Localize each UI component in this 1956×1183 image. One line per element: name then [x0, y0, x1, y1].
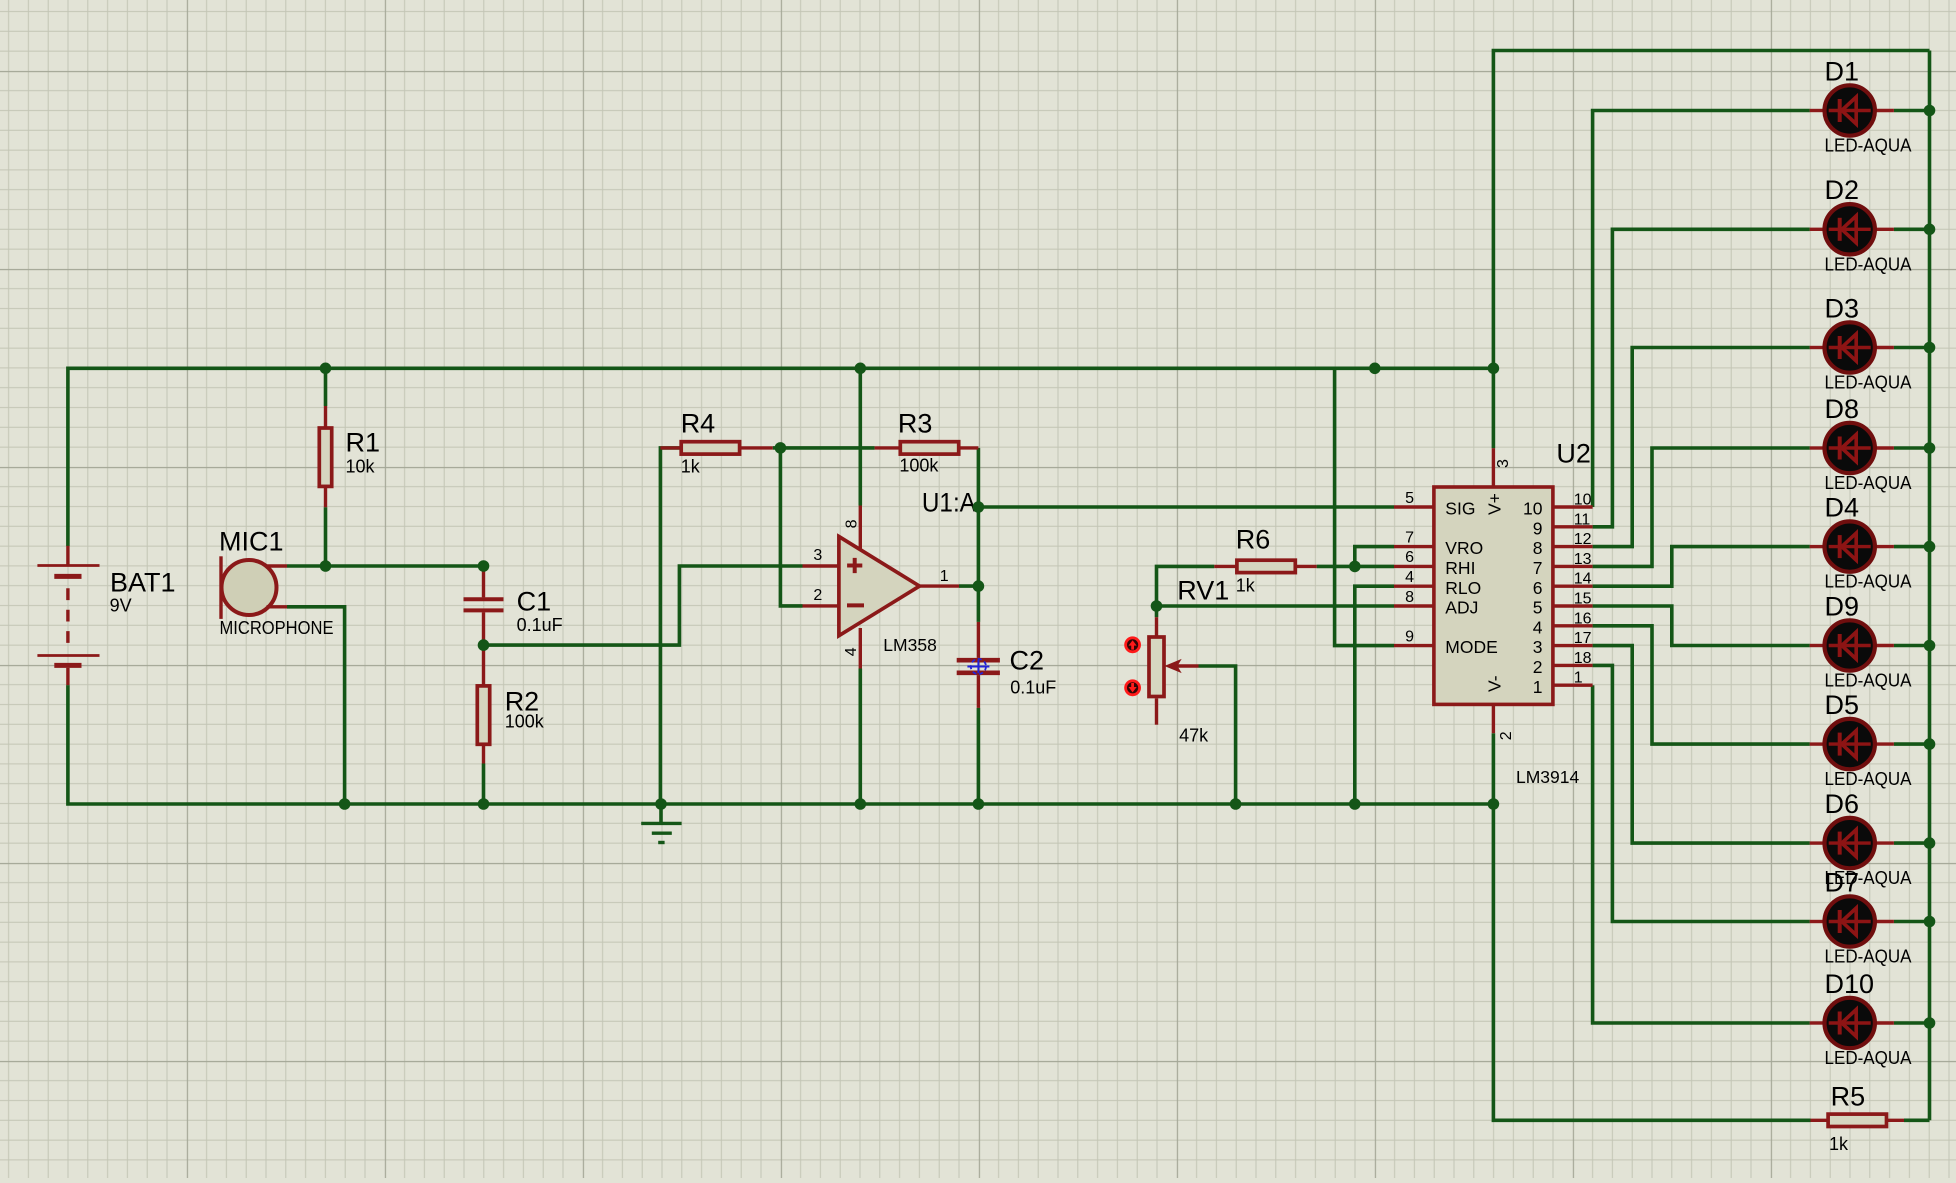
wire LM3914 output 4 to D8	[1593, 448, 1810, 566]
battery BAT1	[37, 546, 99, 685]
svg-text:D1: D1	[1825, 56, 1860, 86]
node junction 860.3,368.3	[855, 363, 867, 375]
node junction 325.5,368.3	[320, 363, 332, 375]
svg-text:VRO: VRO	[1445, 538, 1483, 558]
svg-text:MIC1: MIC1	[219, 527, 284, 557]
wire LM3914 output 5 to D4	[1593, 547, 1810, 587]
svg-text:D10: D10	[1825, 969, 1875, 999]
resistor R5	[1811, 1114, 1905, 1126]
svg-text:V+: V+	[1484, 493, 1504, 515]
node D6 bus	[1924, 837, 1936, 849]
svg-text:6: 6	[1405, 549, 1414, 566]
node D10 bus	[1924, 1017, 1936, 1029]
svg-text:C2: C2	[1010, 646, 1045, 676]
node junction 1493.4,368.3	[1488, 363, 1500, 375]
wire op-amp pin4 to ground	[858, 669, 862, 805]
wire RV1 top node to ADJ pin8	[1157, 604, 1395, 608]
wire D4 cathode to bus	[1894, 545, 1930, 549]
wire LM3914 output 6 to D9	[1593, 606, 1810, 646]
svg-text:LED-AQUA: LED-AQUA	[1825, 373, 1912, 393]
svg-text:4: 4	[1533, 617, 1543, 637]
svg-text:LED-AQUA: LED-AQUA	[1825, 769, 1912, 789]
wire LM3914 output 7 to D5	[1593, 626, 1810, 744]
svg-text:4: 4	[843, 647, 860, 656]
potentiometer RV1	[1149, 617, 1199, 725]
svg-text:D3: D3	[1825, 293, 1860, 323]
wire D7 cathode to bus	[1894, 920, 1930, 924]
wire LM3914 output 10 to D10	[1593, 685, 1810, 1023]
wire D9 cathode to bus	[1894, 644, 1930, 648]
wire RHI node to RHI pin6	[1355, 565, 1394, 569]
svg-text:100k: 100k	[505, 712, 545, 732]
wire battery negative to ground bus	[68, 685, 1494, 804]
svg-text:RHI: RHI	[1445, 558, 1475, 578]
wire LM3914 output 2 to D2	[1593, 229, 1810, 527]
ground symbol	[641, 804, 681, 843]
svg-text:10: 10	[1523, 499, 1543, 519]
resistor R4	[660, 442, 772, 454]
polarity marker C2	[967, 659, 989, 674]
wire R1 top	[324, 368, 328, 406]
IC U2 LM3914	[1394, 448, 1593, 733]
svg-text:LED-AQUA: LED-AQUA	[1825, 572, 1912, 592]
resistor R3	[875, 442, 979, 454]
svg-text:2: 2	[1533, 657, 1543, 677]
wire V+ pin3 drop	[1492, 368, 1496, 448]
wire R6 left to RV1 node	[1157, 566, 1215, 606]
svg-text:LED-AQUA: LED-AQUA	[1825, 947, 1912, 967]
svg-text:7: 7	[1533, 558, 1543, 578]
svg-text:17: 17	[1574, 630, 1592, 647]
svg-text:47k: 47k	[1179, 726, 1209, 746]
svg-text:R1: R1	[346, 428, 381, 458]
node D3 bus	[1924, 342, 1936, 354]
svg-text:14: 14	[1574, 571, 1592, 588]
wire pin1 node to C2	[977, 586, 981, 622]
svg-text:8: 8	[1405, 589, 1414, 606]
svg-text:D8: D8	[1825, 394, 1860, 424]
svg-text:0.1uF: 0.1uF	[517, 615, 563, 635]
wire R4 right to feedback node	[773, 446, 781, 450]
node D2 bus	[1924, 224, 1936, 236]
svg-text:MICROPHONE: MICROPHONE	[220, 618, 334, 638]
wire D2 cathode to bus	[1894, 228, 1930, 232]
svg-text:R5: R5	[1831, 1082, 1866, 1112]
wire D1 cathode to bus	[1894, 109, 1930, 113]
svg-text:SIG: SIG	[1445, 499, 1475, 519]
node junction 344.6,804	[339, 798, 351, 810]
svg-text:16: 16	[1574, 610, 1592, 627]
resistor R1	[319, 406, 331, 507]
node D8 bus	[1924, 442, 1936, 454]
wire R1 bottom	[324, 507, 328, 566]
svg-text:9V: 9V	[110, 595, 132, 615]
wire R6 right to RHI node	[1317, 565, 1355, 569]
LED D4	[1810, 521, 1894, 571]
wire R2 bottom to ground	[482, 764, 486, 805]
node junction 1354.8,566.4	[1349, 561, 1361, 573]
node junction 1235.6,804	[1230, 798, 1242, 810]
node junction 1374.8,368.3	[1369, 363, 1381, 375]
node D1 bus	[1924, 105, 1936, 117]
wire LM3914 output 3 to D3	[1593, 348, 1810, 547]
svg-text:8: 8	[843, 519, 860, 528]
wire C2 bottom to ground	[977, 708, 981, 804]
node junction 1493.4,804	[1488, 798, 1500, 810]
wire V- pin2 to ground node	[1492, 733, 1496, 804]
svg-text:BAT1: BAT1	[110, 568, 176, 598]
wire LM3914 output 8 to D6	[1593, 646, 1810, 844]
svg-text:5: 5	[1533, 598, 1543, 618]
svg-text:12: 12	[1574, 531, 1592, 548]
svg-text:1k: 1k	[1829, 1134, 1849, 1154]
LED D7	[1810, 896, 1894, 946]
node junction 483.5,566.0	[478, 560, 490, 572]
node junction 325.5,566.0	[320, 560, 332, 572]
node D9 bus	[1924, 640, 1936, 652]
RV1 down button	[1126, 681, 1140, 695]
wire op-amp V+ pin8 drop	[858, 368, 862, 505]
svg-text:LED-AQUA: LED-AQUA	[1825, 254, 1912, 274]
svg-text:1k: 1k	[681, 457, 701, 477]
svg-text:RLO: RLO	[1445, 578, 1481, 598]
svg-text:13: 13	[1574, 551, 1592, 568]
resistor R6	[1214, 560, 1316, 572]
RV1 up button	[1126, 638, 1140, 652]
svg-text:LM358: LM358	[883, 635, 937, 655]
svg-text:10: 10	[1574, 492, 1592, 509]
capacitor C1	[464, 566, 504, 645]
wire MIC1 plus to R1/C1 node	[287, 564, 484, 568]
svg-text:0.1uF: 0.1uF	[1010, 677, 1056, 697]
svg-text:LED-AQUA: LED-AQUA	[1825, 473, 1912, 493]
wire R3 right down to output node	[977, 448, 981, 507]
wire C1 bottom to op-amp pin3	[484, 566, 803, 645]
wire D10 cathode to bus	[1894, 1021, 1930, 1025]
svg-text:8: 8	[1533, 538, 1543, 558]
wire D3 cathode to bus	[1894, 346, 1930, 350]
svg-text:6: 6	[1533, 578, 1543, 598]
svg-text:3: 3	[1533, 637, 1543, 657]
LED D6	[1810, 818, 1894, 868]
node D4 bus	[1924, 541, 1936, 553]
svg-text:D9: D9	[1825, 591, 1860, 621]
svg-text:2: 2	[1498, 731, 1515, 740]
wire ground node down to R5	[1493, 804, 1810, 1120]
node junction 1354.8,804	[1349, 798, 1361, 810]
svg-text:R6: R6	[1236, 525, 1271, 555]
node junction 978.4,586.1	[973, 580, 985, 592]
svg-text:7: 7	[1405, 529, 1414, 546]
svg-text:D4: D4	[1825, 492, 1860, 522]
svg-text:LM3914: LM3914	[1516, 767, 1580, 787]
svg-text:10k: 10k	[346, 457, 376, 477]
node junction 661,804	[655, 798, 667, 810]
svg-text:R4: R4	[681, 409, 716, 439]
wire output node down to pin1	[977, 507, 981, 586]
svg-text:C1: C1	[517, 587, 552, 617]
svg-text:4: 4	[1405, 569, 1414, 586]
wire op-amp pin1	[959, 584, 978, 588]
node junction 978.4,507.0	[973, 501, 985, 513]
wire feedback node to op-amp pin2	[780, 448, 802, 606]
svg-text:LED-AQUA: LED-AQUA	[1825, 136, 1912, 156]
svg-text:D6: D6	[1825, 789, 1860, 819]
wire MODE to V+	[1335, 368, 1394, 645]
node junction 780.4,447.9	[775, 442, 787, 454]
node junction 483.5,804	[478, 798, 490, 810]
svg-text:2: 2	[813, 587, 822, 604]
wire RV1 top lead	[1155, 606, 1159, 617]
svg-text:9: 9	[1533, 518, 1543, 538]
svg-text:D5: D5	[1825, 690, 1860, 720]
wire LED anode bus right side	[1928, 51, 1932, 1121]
svg-text:MODE: MODE	[1445, 637, 1498, 657]
op-amp U1 LM358	[803, 506, 960, 669]
svg-text:1: 1	[1574, 670, 1583, 687]
svg-text:18: 18	[1574, 650, 1592, 667]
svg-text:1k: 1k	[1236, 576, 1256, 596]
node D7 bus	[1924, 916, 1936, 928]
wire D5 cathode to bus	[1894, 742, 1930, 746]
wire MIC1 minus to ground bus	[287, 607, 345, 804]
LED D10	[1810, 998, 1894, 1048]
LED D2	[1810, 204, 1894, 254]
resistor R2	[477, 645, 489, 763]
capacitor C2	[957, 622, 1000, 708]
wire R4 left to ground	[660, 448, 680, 804]
svg-text:3: 3	[1495, 459, 1512, 468]
svg-text:9: 9	[1405, 628, 1414, 645]
wire output node to SIG pin5	[978, 505, 1394, 509]
svg-text:100k: 100k	[899, 456, 939, 476]
svg-text:3: 3	[813, 547, 822, 564]
svg-text:V-: V-	[1484, 675, 1504, 692]
LED D8	[1810, 423, 1894, 473]
svg-text:U1:A: U1:A	[922, 488, 976, 518]
svg-text:D7: D7	[1825, 867, 1860, 897]
wire LM3914 output 9 to D7	[1593, 665, 1810, 921]
node junction 978.4,804	[973, 798, 985, 810]
wire VRO pin7 to RHI node	[1355, 547, 1394, 567]
node junction 483.5,645.1	[478, 639, 490, 651]
LED D5	[1810, 719, 1894, 769]
wire LM3914 output 1 to D1	[1593, 111, 1810, 508]
svg-text:11: 11	[1574, 511, 1591, 528]
svg-text:R3: R3	[898, 409, 933, 439]
node junction 1156.5,606.0	[1151, 600, 1163, 612]
svg-text:1: 1	[1533, 677, 1543, 697]
wire feedback node to R3	[780, 446, 874, 450]
wire RV1 wiper to ground	[1199, 666, 1236, 804]
svg-text:15: 15	[1574, 591, 1592, 608]
svg-text:ADJ: ADJ	[1445, 598, 1478, 618]
microphone MIC1	[221, 556, 287, 619]
wire V+ rail from battery to LM3914	[68, 368, 1494, 546]
wire V+ up to LED anode bus	[1493, 51, 1929, 369]
svg-text:U2: U2	[1556, 439, 1591, 469]
wire R5 right to LED bus	[1904, 1119, 1930, 1123]
svg-text:D2: D2	[1825, 175, 1860, 205]
svg-text:5: 5	[1405, 490, 1414, 507]
LED D1	[1810, 85, 1894, 135]
wire D6 cathode to bus	[1894, 841, 1930, 845]
svg-text:LED-AQUA: LED-AQUA	[1825, 671, 1912, 691]
svg-text:1: 1	[940, 568, 949, 585]
node D5 bus	[1924, 738, 1936, 750]
wire RLO pin4 to ground	[1355, 586, 1394, 804]
LED D9	[1810, 620, 1894, 670]
wire D8 cathode to bus	[1894, 446, 1930, 450]
svg-text:LED-AQUA: LED-AQUA	[1825, 1048, 1912, 1068]
node junction 860.3,804	[855, 798, 867, 810]
svg-text:RV1: RV1	[1177, 576, 1229, 606]
LED D3	[1810, 322, 1894, 372]
